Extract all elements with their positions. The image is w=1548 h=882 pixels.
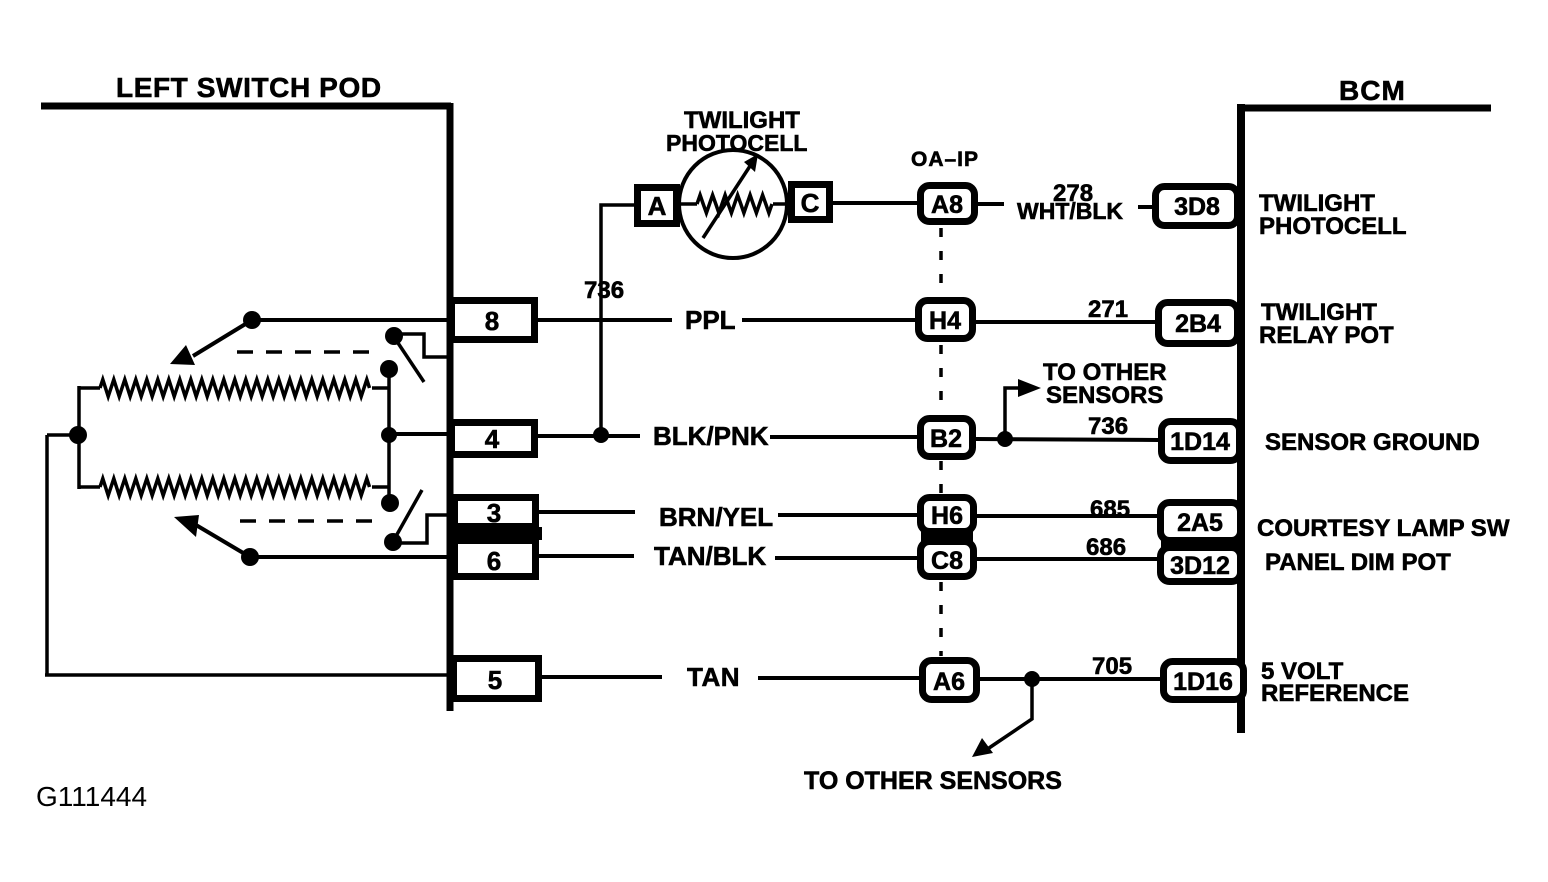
- wiper arrow (top): [193, 320, 252, 356]
- switch wire hook (bottom): [393, 515, 449, 543]
- wire TAN/BLK right segment: [775, 556, 917, 560]
- resistor (upper): [79, 386, 100, 390]
- svg-text:PPL: PPL: [685, 305, 736, 335]
- svg-text:1D14: 1D14: [1170, 428, 1230, 456]
- wire from box A to circuit 736 drop: [601, 205, 634, 432]
- left switch pod boundary top line: [41, 103, 451, 110]
- svg-text:OA–IP: OA–IP: [911, 148, 979, 171]
- svg-text:G111444: G111444: [36, 781, 147, 812]
- junction node to other sensors: [997, 431, 1013, 447]
- wire stub into 3D8: [1138, 205, 1155, 209]
- switch blade (bottom): [395, 490, 422, 538]
- svg-text:1D16: 1D16: [1173, 668, 1233, 696]
- svg-text:RELAY POT: RELAY POT: [1259, 322, 1394, 349]
- BCM pin 2A5: [1161, 503, 1241, 541]
- wiper wire to pin 6: [250, 555, 451, 559]
- wire junction to far-left drop: [47, 433, 79, 437]
- BCM pin 1D14: [1162, 422, 1240, 461]
- svg-text:H6: H6: [931, 502, 963, 530]
- svg-text:H4: H4: [929, 307, 961, 335]
- wire A6 to 1D16: [980, 677, 1160, 681]
- right end vertical wire: [387, 369, 391, 504]
- wire TAN from pot to pin 5: [45, 673, 450, 677]
- BCM pin 3D12: [1161, 548, 1241, 582]
- svg-text:3: 3: [487, 498, 501, 528]
- connector pin B2: [921, 419, 973, 457]
- wire TAN/BLK left segment: [539, 554, 634, 558]
- wire TAN right segment: [758, 676, 919, 680]
- BCM pin 1D16: [1164, 662, 1244, 700]
- svg-text:685: 685: [1090, 496, 1130, 523]
- svg-text:2A5: 2A5: [1177, 509, 1223, 537]
- junction node left ends: [69, 426, 87, 444]
- wire PPL right segment: [742, 318, 915, 322]
- wiper wire to pin 8: [252, 318, 448, 322]
- photocell variable arrow: [703, 163, 752, 238]
- svg-text:C8: C8: [931, 547, 963, 575]
- svg-text:BLK/PNK: BLK/PNK: [653, 421, 769, 451]
- wire BRN/YEL right segment: [778, 513, 917, 517]
- connector dashed line (OA-IP): [939, 228, 943, 296]
- switch blade (top): [398, 343, 424, 382]
- svg-text:2B4: 2B4: [1175, 310, 1221, 338]
- BCM pin 2B4: [1159, 303, 1238, 344]
- svg-text:8: 8: [485, 306, 499, 336]
- svg-text:A6: A6: [933, 668, 965, 696]
- svg-text:6: 6: [487, 546, 501, 576]
- switch pod pin 4: [452, 423, 535, 455]
- shared border 2A5/3D12: [1161, 540, 1240, 548]
- svg-text:A8: A8: [931, 191, 963, 219]
- terminal box A: [638, 188, 677, 224]
- svg-text:C: C: [801, 188, 820, 218]
- switch contact node (bottom): [384, 533, 402, 551]
- svg-text:271: 271: [1088, 296, 1128, 323]
- svg-text:686: 686: [1086, 534, 1126, 561]
- far-left vertical wire to TAN: [45, 435, 49, 675]
- wire BLK/PNK right segment: [770, 435, 917, 439]
- wire BRN/YEL left segment: [539, 510, 635, 514]
- wiper arrow (bottom): [196, 525, 250, 557]
- svg-text:4: 4: [485, 424, 500, 454]
- switch pod pin 5: [454, 659, 539, 699]
- photocell circle: [679, 150, 787, 258]
- svg-text:COURTESY LAMP SW: COURTESY LAMP SW: [1257, 515, 1510, 542]
- svg-text:705: 705: [1092, 653, 1132, 680]
- node center tap: [381, 427, 397, 443]
- svg-text:B2: B2: [930, 425, 962, 453]
- svg-text:BRN/YEL: BRN/YEL: [659, 502, 773, 532]
- svg-text:BCM: BCM: [1339, 75, 1406, 106]
- BCM boundary top line: [1238, 105, 1491, 112]
- svg-text:3D12: 3D12: [1170, 552, 1230, 580]
- svg-text:LEFT SWITCH POD: LEFT SWITCH POD: [116, 72, 382, 103]
- svg-text:PANEL DIM POT: PANEL DIM POT: [1265, 549, 1451, 576]
- switch pod pin 8: [452, 301, 535, 340]
- BCM pin 3D8: [1156, 187, 1238, 226]
- shared border H6/C8: [921, 531, 973, 542]
- wire center tap to pin 4: [389, 432, 448, 436]
- junction node 736 drop: [593, 427, 609, 443]
- wire B2 to 1D14: [976, 439, 1158, 440]
- wire BLK/PNK left segment: [538, 434, 640, 438]
- wiper node (bottom): [241, 548, 259, 566]
- left end vertical wire: [77, 386, 81, 489]
- connector pin H6: [921, 498, 974, 532]
- svg-text:736: 736: [584, 277, 624, 304]
- wire TAN left segment: [542, 675, 662, 679]
- svg-text:5: 5: [488, 665, 502, 695]
- svg-text:TO OTHER SENSORS: TO OTHER SENSORS: [804, 767, 1062, 795]
- svg-text:SENSORS: SENSORS: [1046, 382, 1163, 409]
- node lower end: [381, 494, 399, 512]
- junction node to other sensors (bottom): [1024, 671, 1040, 687]
- wire PPL left segment: [538, 318, 672, 322]
- svg-text:SENSOR GROUND: SENSOR GROUND: [1265, 429, 1480, 456]
- photocell resistor element: [680, 202, 697, 206]
- svg-text:TAN/BLK: TAN/BLK: [654, 541, 766, 571]
- left switch pod bus (vertical): [447, 103, 454, 711]
- branch arrow to other sensors (bottom): [989, 679, 1032, 748]
- wire H4 to 2B4: [976, 320, 1155, 324]
- switch contact node (top): [385, 327, 403, 345]
- switch pod pin 3: [455, 498, 536, 527]
- wire A8 to 3D8 stub left: [978, 202, 1004, 206]
- linkage dashed (top): [237, 350, 379, 354]
- svg-text:736: 736: [1088, 413, 1128, 440]
- svg-text:TAN: TAN: [687, 662, 740, 692]
- connector pin C8: [921, 542, 974, 577]
- wire from box C to connector A8: [833, 201, 917, 205]
- connector pin H4: [919, 301, 973, 339]
- resistor (lower): [79, 485, 100, 489]
- switch wire hook (top): [394, 334, 448, 357]
- linkage dashed (bottom): [240, 519, 373, 523]
- svg-text:PHOTOCELL: PHOTOCELL: [1259, 213, 1407, 240]
- wire H6 to 2A5: [977, 514, 1157, 518]
- terminal box C: [792, 185, 830, 220]
- shared border pins 3/6: [448, 527, 542, 540]
- BCM bus (vertical): [1237, 104, 1245, 733]
- svg-text:REFERENCE: REFERENCE: [1261, 680, 1409, 707]
- branch arrow to other sensors: [1005, 388, 1020, 439]
- svg-text:A: A: [648, 191, 667, 221]
- svg-text:3D8: 3D8: [1174, 193, 1220, 221]
- wire C8 to 3D12: [977, 557, 1157, 561]
- svg-text:WHT/BLK: WHT/BLK: [1017, 198, 1123, 224]
- connector pin A8: [921, 186, 975, 222]
- connector pin A6: [923, 661, 977, 700]
- wiper node (top): [243, 311, 261, 329]
- node upper end: [380, 360, 398, 378]
- switch pod pin 6: [455, 541, 536, 577]
